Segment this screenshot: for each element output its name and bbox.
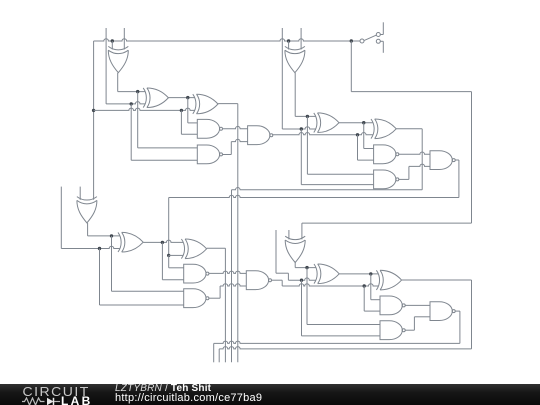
wire P4 to NAND2d [307,268,380,325]
nand-gate U4 (NAND1a) [197,119,222,138]
wire P3 to NAND2c [112,236,184,291]
wire bus to XOR V1 [111,41,113,50]
wire bus to XOR V2 [288,41,290,50]
node carry4 branch [363,284,366,287]
node P4 branch [305,266,308,269]
wire switch throw 1 [380,22,383,34]
xor-gate U19 (XOR V4) [285,236,305,262]
xor-gate U20 (XOR A4) [314,264,339,284]
wire switch net to XOR V4 [302,41,472,239]
wire carry3 to XOR B3 [169,254,184,256]
wire input A4 stub [288,230,290,239]
wire bus left drop [93,41,95,200]
node A3 branch [98,247,101,250]
node P2 branch [306,115,309,118]
node B1 branch [130,102,133,105]
wire input A1 stub [123,28,125,50]
switch SW1 throw 1 contact [376,33,380,37]
wire carry2 to NAND1b [358,135,374,160]
wire XOR A1 out [169,97,195,99]
wire sum4 [219,280,471,362]
wire carry1 out [273,133,373,135]
xor-gate U8 (XOR A2) [314,113,339,133]
wire input A3 stub [61,187,120,249]
wire carry4 to NAND1d [364,286,380,311]
wire NAND1d out [405,304,430,306]
wire NAND1a out [223,126,248,128]
wire input B4 stub [276,230,316,280]
switch SW1 lever [364,35,376,41]
node bus junction switch [350,39,353,42]
wire NAND2b out [399,164,430,179]
wire A3out to NAND1c [162,242,183,279]
node XOR A4 out branch [369,272,372,275]
node B4 branch [300,279,303,282]
node carry2 branch [356,133,359,136]
wire A4out to NAND1d [371,274,380,300]
wire P2 from XOR V2 [295,73,316,117]
wire input A2 stub [300,28,302,50]
xor-gate U13 (XOR V3) [77,197,97,223]
wire carry4 out [214,311,460,362]
wire B4 to NAND2d [302,280,381,336]
node bus junction A1 [111,39,114,42]
wire XOR A3 out [143,240,183,242]
wire input bus [94,39,360,41]
footer bar [0,384,540,405]
xor-gate U14 (XOR A3) [118,232,143,252]
attribution line 1 [115,383,211,394]
switch SW1 throw 2 contact [376,39,380,43]
wire P1 from XOR V1 [118,73,145,92]
wire XOR A2 out [339,122,373,124]
node XOR A3 out branch [161,241,164,244]
nand-gate U6 (NAND3a) [248,126,273,145]
node carry3 tee [167,254,170,257]
wire input B1 stub [106,28,145,104]
wire A2out to NAND1b [364,123,374,149]
attribution URL [115,392,262,404]
wire A1out to NAND1a [188,98,198,123]
xor-gate U9 (XOR B2) [371,119,396,139]
wire input B2 stub [282,28,316,129]
resistor R logo [22,398,45,405]
wire P1 to NAND2a [138,92,198,148]
switch SW1 common contact [360,39,364,43]
wire NAND2c out [209,284,246,299]
wire XOR A4 out [339,273,378,275]
diode D logo [47,397,54,404]
node carry1 branch [180,109,183,112]
nand-gate U16 (NAND1c) [184,264,209,283]
nand-gate U17 (NAND2c) [184,289,209,308]
node P3 branch [110,234,113,237]
node XOR A1 out branch [186,96,189,99]
nand-gate U22 (NAND1d) [380,296,405,315]
xor-gate U2 (XOR A1) [143,88,168,108]
node XOR A2 out branch [362,121,365,124]
nand-gate U12 (NAND3b) [430,151,455,170]
wire NAND1c out [209,271,246,273]
wire carry1 to NAND1a [181,110,197,134]
logo resistor squiggle and diode [22,397,64,405]
node P1 branch [136,90,139,93]
xor-gate U1 (XOR V1) [108,46,128,72]
nand-gate U18 (NAND3c) [246,271,271,290]
wire P3 from XOR V3 [88,223,120,236]
wire A3 to NAND2c [100,249,184,306]
wire sum3 [207,248,226,362]
xor-gate U21 (XOR B4) [376,270,401,290]
xor-gate U7 (XOR V2) [285,46,305,72]
wire carry-in 1 [94,108,195,110]
wire sum1 [218,104,238,363]
nand-gate U5 (NAND2a) [197,145,222,164]
wire input B3 stub [79,187,81,200]
wire NAND2a out [223,139,248,154]
wire P2 to NAND2b [307,116,373,174]
nand-gate U24 (NAND3d) [430,302,455,321]
wire B1 to NAND2a [131,104,197,160]
nand-gate U23 (NAND2d) [380,321,405,340]
wire B2 to NAND2b [301,129,373,185]
nand-gate U11 (NAND2b) [374,170,399,189]
nand-gate U10 (NAND1b) [374,145,399,164]
node B2 branch [300,127,303,130]
node bus carry1 tap [92,109,95,112]
xor-gate U3 (XOR B1) [193,94,218,114]
CircuitLab logo text CIRCUIT [23,384,90,399]
wire carry3 out [272,280,379,286]
wire carry2 out [169,160,459,255]
CircuitLab logo text LAB [61,394,93,405]
wire carry3 to NAND1c [169,255,184,267]
wire P4 from XOR V4 [295,263,316,268]
xor-gate U15 (XOR B3) [181,239,206,259]
wire sum2 [232,129,423,362]
wire NAND1b out [399,152,430,154]
wire NAND2d out [405,317,430,330]
wire switch throw 2 [380,41,383,53]
node bus junction A2 [287,39,290,42]
